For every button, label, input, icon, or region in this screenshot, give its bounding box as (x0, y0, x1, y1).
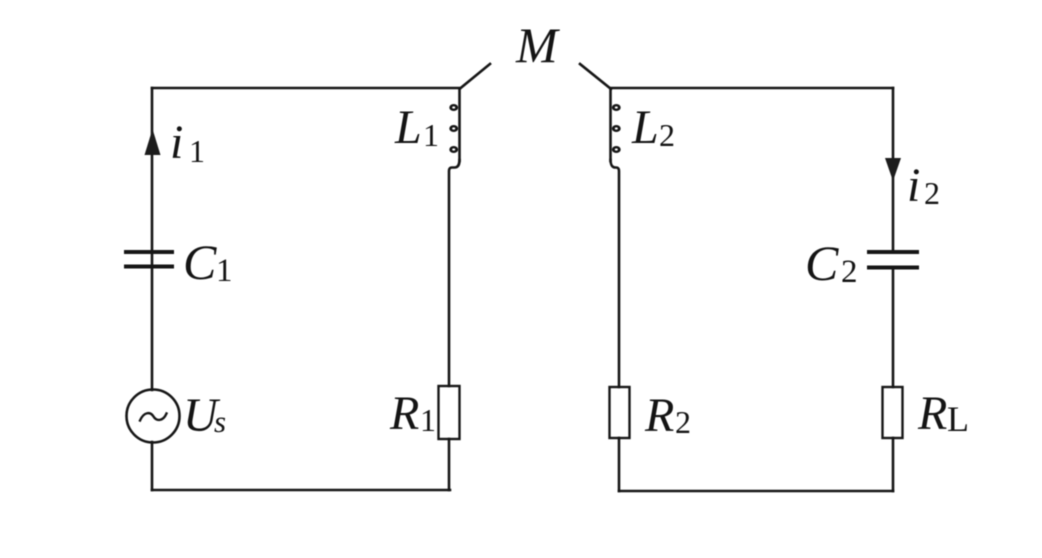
svg-text:1: 1 (189, 133, 205, 169)
svg-text:L: L (631, 101, 659, 154)
svg-text:s: s (214, 404, 226, 439)
svg-text:L: L (394, 101, 422, 154)
coupling leader line left (toward M) (460, 64, 490, 89)
svg-text:1: 1 (423, 117, 439, 153)
inductor L2 loop 2 (612, 125, 621, 132)
wire bottom-right (619, 490, 893, 493)
wire right upper (top to C2) (892, 88, 895, 251)
wire R2 branch upper (L2 bottom to R2) (611, 160, 620, 387)
svg-text:1: 1 (216, 253, 233, 289)
svg-text:C: C (805, 235, 839, 291)
svg-text:R: R (917, 387, 947, 440)
current arrow i2 (down, on right wire) (885, 158, 901, 181)
inductor L2 coil main line (609, 89, 612, 161)
resistor R2 body (610, 387, 630, 438)
wire bottom-left (152, 489, 450, 492)
capacitor C2 top plate (869, 250, 917, 254)
wire top-right (top of secondary loop) (611, 87, 893, 90)
svg-text:L: L (947, 399, 969, 439)
capacitor C1 bottom plate (126, 265, 172, 269)
svg-text:C: C (183, 234, 217, 290)
svg-text:M: M (515, 17, 560, 73)
wire R1 branch lower (R1 to bottom wire) (448, 439, 451, 490)
svg-text:2: 2 (675, 404, 691, 440)
wire R2 branch lower (R2 to bottom wire) (618, 438, 621, 491)
voltage source Us sine symbol (140, 413, 167, 420)
inductor L1 coil main line (458, 89, 461, 161)
wire R1 branch upper (L1 bottom to R1) (449, 160, 460, 386)
inductor L1 loop 3 (449, 146, 458, 153)
svg-text:1: 1 (420, 402, 436, 438)
resistor R1 body (439, 386, 460, 439)
wire left upper (source to top) (151, 88, 154, 390)
svg-text:i: i (907, 159, 920, 212)
svg-text:2: 2 (924, 175, 940, 211)
inductor L1 loop 2 (449, 125, 458, 132)
svg-text:2: 2 (841, 254, 858, 290)
svg-text:R: R (644, 389, 674, 442)
svg-text:2: 2 (659, 117, 675, 153)
voltage source Us circle (127, 390, 180, 443)
svg-text:i: i (170, 116, 183, 169)
wire left lower (source to bottom) (151, 442, 154, 490)
resistor RL body (883, 387, 903, 438)
current arrow i1 (up, on left wire) (145, 129, 161, 155)
wire right middle (C2 to RL) (892, 268, 895, 387)
capacitor C1 top plate (126, 250, 172, 254)
inductor L2 loop 3 (612, 146, 621, 153)
inductor L2 loop 1 (612, 104, 621, 111)
wire right lower (RL to bottom) (892, 438, 895, 491)
inductor L1 loop 1 (449, 104, 458, 111)
wire top-left (top of primary loop) (152, 87, 460, 90)
coupling leader line right (toward M) (580, 64, 611, 89)
svg-text:R: R (389, 387, 419, 440)
capacitor C2 bottom plate (869, 266, 917, 270)
